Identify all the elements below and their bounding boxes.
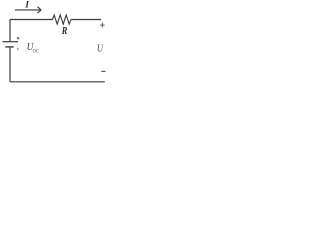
source label subscript OC: [33, 48, 40, 55]
current arrow I: [15, 7, 41, 13]
wire top right to + terminal: [71, 19, 101, 21]
svg-text:R: R: [61, 26, 67, 37]
wire left vertical lower: [9, 48, 11, 82]
svg-text:I: I: [24, 0, 29, 10]
battery Uoc long plate: [3, 41, 19, 43]
battery Uoc short plate: [5, 46, 14, 48]
svg-text:U: U: [97, 44, 104, 55]
battery minus tick: [17, 48, 19, 50]
wire bottom: [10, 81, 105, 83]
wire left vertical upper: [9, 20, 11, 42]
value label R: [61, 26, 67, 37]
terminal plus: [100, 23, 105, 28]
source label U: [27, 42, 34, 54]
output voltage label U: [97, 44, 104, 55]
wire top from left corner to resistor: [10, 19, 53, 21]
svg-text:OC: OC: [33, 48, 40, 55]
resistor R: [53, 15, 71, 24]
terminal minus: [101, 70, 105, 72]
battery plus mark: [17, 37, 20, 40]
